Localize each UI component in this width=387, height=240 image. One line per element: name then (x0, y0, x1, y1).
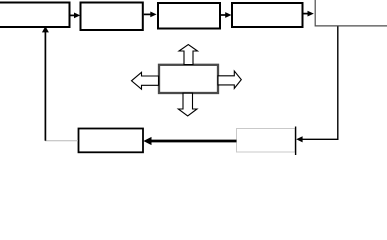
hollow arrow right (218, 71, 241, 88)
box BR (bottom-right, light gray border, cut off at bottom) (237, 129, 296, 153)
box B5 (top-right, cut off by image edge) (315, 0, 387, 26)
box B4 (232, 3, 303, 27)
arrow B4 to B5 (304, 11, 314, 17)
box B1 (top-left, cut off at left edge) (0, 3, 70, 28)
center box U (hub with four hollow arrows) (159, 65, 218, 93)
arrowhead into BR right edge (296, 136, 302, 142)
box BL (bottom-left) (79, 129, 144, 153)
hollow arrow up (179, 45, 198, 65)
wire connector B5 down to BR (302, 26, 338, 139)
hollow arrow left (132, 72, 159, 89)
box B3 (158, 3, 220, 29)
hollow arrow down (178, 93, 197, 116)
wire BL left to riser (light gray) (45, 140, 78, 142)
arrow B1 to B2 (71, 13, 81, 19)
black right edge line of box BR (295, 127, 297, 156)
thick arrow BR to BL (143, 137, 236, 145)
arrow B3 to B4 (221, 12, 232, 18)
box B2 (81, 3, 143, 31)
arrow riser up into B1 (42, 26, 49, 141)
arrow B2 to B3 (144, 12, 157, 18)
